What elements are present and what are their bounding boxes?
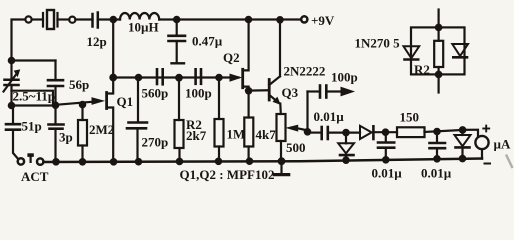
node D3 <box>460 127 465 132</box>
svg-text:56p: 56p <box>69 77 89 92</box>
resistor R2 2k7 <box>175 78 184 162</box>
svg-text:Q2: Q2 <box>223 50 240 65</box>
wire detector line <box>308 132 321 134</box>
node rail pot <box>279 158 285 164</box>
crystal X1 <box>43 10 69 29</box>
capacitor 100p out <box>320 86 342 98</box>
node 1M <box>216 75 221 80</box>
svg-text:ACT: ACT <box>21 169 49 184</box>
svg-text:560p: 560p <box>142 86 169 101</box>
node C3 <box>434 129 439 134</box>
resistor 150 <box>397 127 463 137</box>
diode D4 probe left <box>404 46 420 59</box>
terminal J2 <box>69 17 75 23</box>
svg-text:2M2: 2M2 <box>89 122 114 137</box>
terminal ACT right <box>37 158 43 164</box>
node tank mid left <box>9 103 14 108</box>
diode D3 <box>455 130 471 159</box>
node C2 <box>383 130 388 135</box>
svg-text:270p: 270p <box>142 135 169 150</box>
node top B <box>174 17 179 22</box>
wire tank top <box>12 59 56 61</box>
wire output line <box>308 90 319 92</box>
node rail Q1 source <box>111 159 116 164</box>
node probe bottom <box>436 72 441 77</box>
node top A <box>111 17 116 22</box>
svg-text:12p: 12p <box>87 34 107 49</box>
node probe top <box>436 25 441 30</box>
node top D <box>277 17 282 22</box>
capacitor 560p <box>157 69 163 84</box>
svg-text:R2: R2 <box>414 62 430 77</box>
capacitor 3p <box>49 125 64 162</box>
gate arrow Q2 <box>230 74 241 81</box>
svg-text:+9V: +9V <box>311 13 335 28</box>
terminal ACT left <box>18 158 24 164</box>
wire to meter <box>463 130 479 137</box>
diode D2 series <box>360 126 397 139</box>
output arrow <box>341 87 354 95</box>
capacitor 56p <box>48 61 63 125</box>
wire ground rail <box>44 159 482 163</box>
capacitor 12p <box>93 13 121 28</box>
wire Q2 to Q3 base <box>249 89 268 91</box>
capacitor 0.01u shunt1 <box>378 132 394 160</box>
transistor Q2 MPF102 <box>243 20 249 92</box>
node rail 4k7 <box>247 159 252 164</box>
node rail 2M2 <box>80 159 85 164</box>
svg-text:500: 500 <box>286 140 306 155</box>
inductor L1 10uH <box>120 13 159 20</box>
svg-text:150: 150 <box>400 110 420 125</box>
wire drain vertical <box>112 20 114 78</box>
svg-text:51p: 51p <box>22 119 42 134</box>
node tank mid right <box>53 103 58 108</box>
link pin <box>28 154 33 162</box>
capacitor 0.01u series <box>322 127 360 139</box>
potentiometer 500 <box>277 114 308 161</box>
diode D1 <box>338 133 354 161</box>
probe box <box>411 27 465 74</box>
node 270p <box>136 75 141 80</box>
node tank top <box>9 58 14 63</box>
terminal +9V <box>301 16 307 22</box>
node D1 <box>343 130 348 135</box>
capacitor C 0.47u <box>169 20 186 64</box>
transistor Q1 MPF102 <box>107 78 114 162</box>
wire left rail lower <box>10 85 12 106</box>
wire <box>76 18 93 20</box>
svg-text:2N2222: 2N2222 <box>284 64 326 79</box>
svg-text:4k7: 4k7 <box>256 127 277 142</box>
svg-text:µA: µA <box>494 137 511 152</box>
resistor 2M2 <box>78 105 87 162</box>
meter uA <box>475 136 488 149</box>
capacitor 0.01u shunt2 <box>430 132 446 159</box>
svg-text:1M: 1M <box>227 127 246 142</box>
resistor 1M <box>215 78 224 162</box>
wire probe lead <box>438 10 440 93</box>
terminal J1 <box>25 16 31 22</box>
node rail D1 <box>343 158 348 163</box>
wire top rail right segment <box>159 18 301 20</box>
capacitor 100p mid <box>196 69 201 84</box>
svg-text:Q1: Q1 <box>117 94 134 109</box>
ground symbol <box>274 161 288 174</box>
node top C <box>246 17 251 22</box>
node rail C2 <box>383 157 388 162</box>
svg-text:100p: 100p <box>185 86 212 101</box>
corner mark <box>506 155 513 169</box>
svg-text:10µH: 10µH <box>128 20 159 35</box>
meter minus mark <box>485 163 491 165</box>
svg-text:Q1,Q2 : MPF102: Q1,Q2 : MPF102 <box>180 167 275 182</box>
svg-text:Q3: Q3 <box>282 85 299 100</box>
diode D5 probe right <box>452 44 468 57</box>
resistor R2 probe <box>434 41 443 67</box>
resistor 4k7 <box>244 91 253 161</box>
svg-text:3p: 3p <box>59 130 73 145</box>
node rail 1M <box>216 159 221 164</box>
transistor Q3 2N2222 <box>269 20 281 114</box>
meter plus mark <box>483 128 489 130</box>
wire top rail left segment <box>12 20 26 80</box>
svg-text:0.01µ: 0.01µ <box>314 109 345 124</box>
node rail 270p <box>136 159 141 164</box>
wire label box line <box>12 91 54 106</box>
svg-text:2k7: 2k7 <box>186 128 207 143</box>
svg-text:0.01µ: 0.01µ <box>421 166 452 181</box>
svg-text:1N270 5: 1N270 5 <box>355 36 401 51</box>
wire meter bottom <box>481 149 483 158</box>
node gate 2M2 <box>80 102 85 107</box>
wire wiper vertical <box>306 92 308 134</box>
node rail 3p <box>53 159 58 164</box>
node Q2 source <box>246 88 251 93</box>
wire <box>32 18 43 20</box>
capacitor 51p <box>6 106 20 159</box>
node R2 <box>176 75 182 81</box>
variable capacitor VC 2.5~11p <box>4 70 20 92</box>
svg-text:0.01µ: 0.01µ <box>372 166 403 181</box>
capacitor 270p <box>127 78 147 162</box>
node rail C3 <box>434 156 439 161</box>
wire tank mid <box>12 104 56 106</box>
svg-text:0.47µ: 0.47µ <box>192 34 223 49</box>
wire gate line Q1 <box>56 102 93 105</box>
svg-text:100p: 100p <box>331 69 358 84</box>
wire middle line <box>113 76 238 78</box>
node wiper <box>305 129 310 134</box>
node rail D3 <box>460 156 465 161</box>
gate arrow Q1 <box>92 98 103 104</box>
node rail R2 <box>177 159 182 164</box>
svg-text:2.5~11p: 2.5~11p <box>13 88 56 103</box>
node mid A <box>110 75 116 81</box>
